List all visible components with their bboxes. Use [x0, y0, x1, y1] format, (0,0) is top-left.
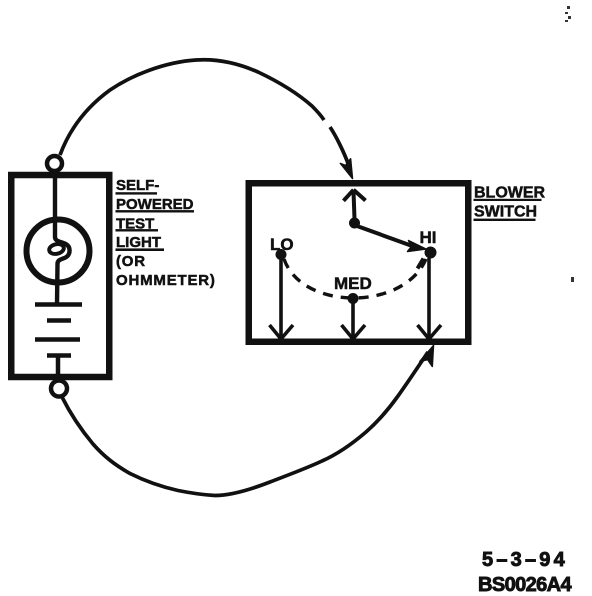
svg-text:HI: HI [420, 228, 437, 247]
svg-text:SWITCH: SWITCH [474, 204, 537, 221]
svg-text:SELF-: SELF- [116, 177, 159, 194]
svg-text:(OR: (OR [116, 253, 146, 270]
svg-text:BS0026A4: BS0026A4 [478, 574, 573, 596]
svg-text:5–3–94: 5–3–94 [482, 549, 568, 571]
svg-text:LO: LO [270, 235, 294, 254]
svg-text:OHMMETER): OHMMETER) [116, 272, 216, 289]
svg-text:MED: MED [334, 274, 372, 293]
